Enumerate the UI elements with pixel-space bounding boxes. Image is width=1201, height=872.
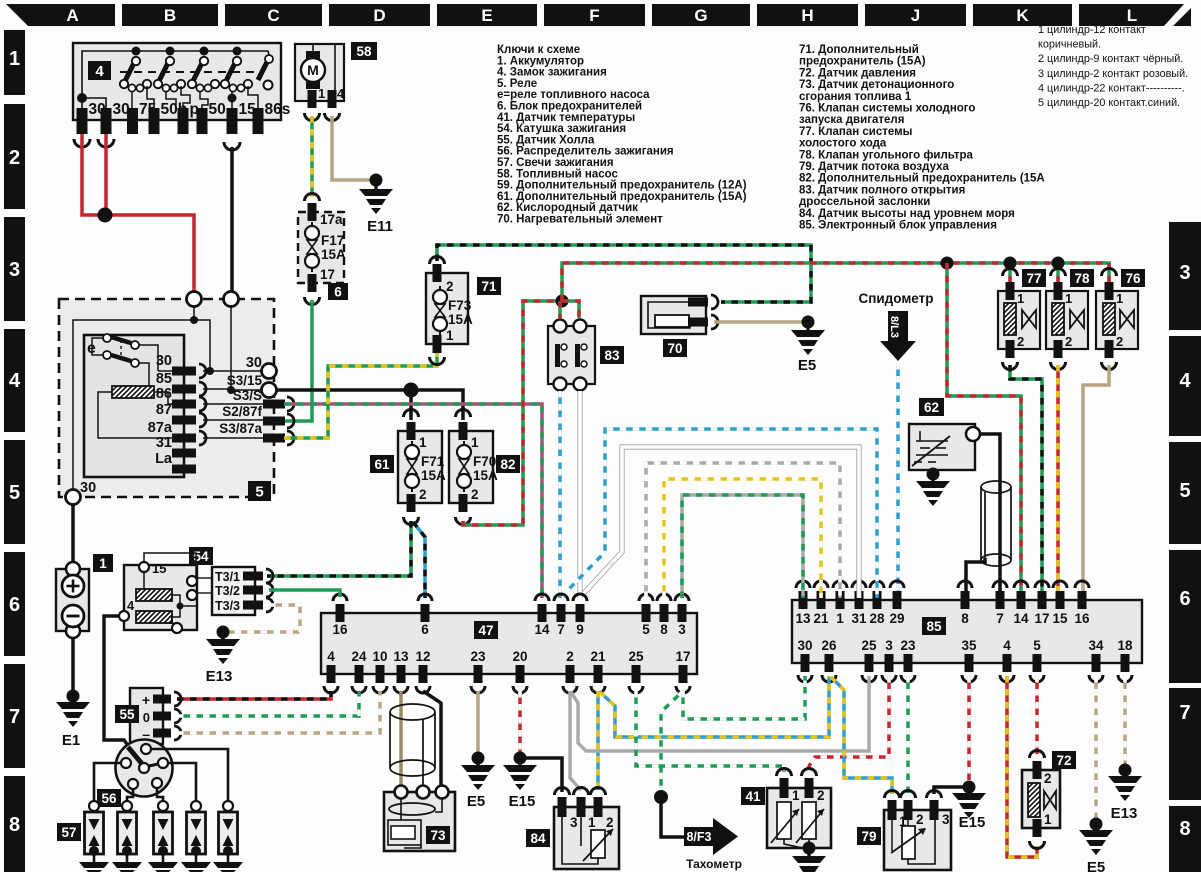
svg-text:8/F3: 8/F3 [686, 830, 711, 844]
svg-text:8: 8 [660, 622, 668, 637]
svg-text:p: p [190, 101, 199, 118]
svg-text:4 цилиндр-22 контакт----------: 4 цилиндр-22 контакт----------. [1038, 82, 1185, 94]
svg-text:70: 70 [667, 341, 682, 356]
junction dots red-green bus [941, 257, 954, 270]
wire black S3/15 to fuses 61 82 [277, 390, 463, 420]
wire blue-white 47 pin7 to 85 pin28 [565, 429, 877, 598]
heater element 70 [641, 295, 718, 357]
svg-text:3: 3 [885, 638, 893, 653]
svg-text:H: H [801, 6, 813, 25]
svg-text:5: 5 [1033, 638, 1041, 653]
svg-text:1: 1 [318, 86, 325, 101]
svg-text:85. Электронный блок управлени: 85. Электронный блок управления [799, 220, 997, 232]
svg-text:28: 28 [869, 611, 885, 626]
idle valve 77 [972, 269, 1079, 370]
unit 47 bottom pins [327, 665, 336, 683]
wire green-black fuse71 to heater 70 [437, 245, 811, 302]
svg-text:3: 3 [9, 259, 20, 281]
svg-text:7: 7 [996, 611, 1004, 626]
svg-text:30: 30 [89, 101, 106, 118]
svg-text:1: 1 [446, 328, 454, 343]
svg-text:9: 9 [576, 622, 584, 637]
relay box 5 top connectors [187, 292, 202, 307]
relay bottom terminal 30 [66, 490, 81, 505]
svg-text:0: 0 [143, 710, 150, 725]
svg-text:Спидометр: Спидометр [858, 291, 933, 306]
svg-text:41. Датчик температуры: 41. Датчик температуры [497, 112, 635, 124]
coil connector T3 [197, 567, 273, 615]
svg-text:13: 13 [393, 649, 409, 664]
svg-text:F71: F71 [421, 454, 445, 469]
svg-text:F17: F17 [321, 233, 344, 248]
fuse 61 F71 15A [370, 410, 446, 525]
ground E13 right [1119, 764, 1132, 777]
svg-text:16: 16 [1074, 611, 1090, 626]
wire blue-white 83 to 47 pin7 [558, 391, 562, 598]
svg-text:J: J [911, 6, 920, 25]
svg-text:84. Датчик высоты над уровнем: 84. Датчик высоты над уровнем моря [799, 208, 1015, 220]
svg-text:87: 87 [156, 402, 172, 418]
svg-text:25: 25 [628, 649, 644, 664]
svg-text:30: 30 [113, 101, 130, 118]
svg-text:2: 2 [1017, 334, 1024, 349]
ground under temp sensor 41 [803, 842, 816, 855]
svg-text:58. Топливный насос: 58. Топливный насос [497, 168, 619, 180]
svg-text:2: 2 [471, 487, 479, 502]
svg-text:70. Нагревательный элемент: 70. Нагревательный элемент [497, 214, 663, 226]
svg-text:B: B [164, 6, 176, 25]
svg-text:86s: 86s [265, 101, 291, 118]
svg-text:50: 50 [209, 101, 226, 118]
spark plugs 57 [57, 823, 81, 841]
svg-text:71: 71 [481, 279, 497, 294]
wire yellow-red valve78 to 85 pin15 [1056, 365, 1060, 598]
wire red-white 47 pin20 to ground E15 [518, 691, 522, 752]
wire black 47 pin12 to knock sensor [423, 691, 441, 786]
svg-text:7: 7 [557, 622, 565, 637]
wire red from terminal 30b [104, 134, 108, 215]
svg-text:E11: E11 [367, 218, 393, 235]
ignition switch block 4 [73, 43, 281, 120]
svg-text:8: 8 [9, 814, 20, 836]
svg-text:E15: E15 [959, 814, 986, 831]
svg-text:14: 14 [1013, 611, 1029, 626]
relay chip 5 [248, 481, 271, 501]
svg-text:85: 85 [156, 371, 172, 387]
svg-text:6. Блок предохранителей: 6. Блок предохранителей [497, 101, 642, 113]
svg-text:87a: 87a [148, 420, 173, 436]
wire red-green bus drop to valve 77 [1008, 263, 1012, 284]
wire green-black valve77 to 85 pin17 [1010, 365, 1042, 598]
svg-text:79. Датчик потока воздуха: 79. Датчик потока воздуха [799, 161, 950, 173]
wire black coil terminal4 to distributor [104, 616, 142, 765]
unit 85 top pins [799, 591, 808, 609]
svg-text:29: 29 [889, 611, 904, 626]
svg-text:77. Клапан системы: 77. Клапан системы [799, 126, 913, 138]
svg-text:30: 30 [797, 638, 812, 653]
svg-text:G: G [694, 6, 707, 25]
svg-text:е=реле топливного насоса: е=реле топливного насоса [497, 89, 650, 101]
svg-text:31: 31 [851, 611, 867, 626]
svg-text:E15: E15 [509, 793, 536, 810]
wire green-white 47 pin17 to 85 pin30 [683, 676, 805, 719]
svg-text:72. Датчик давления: 72. Датчик давления [799, 67, 916, 79]
svg-text:7: 7 [9, 706, 20, 728]
svg-text:F70: F70 [473, 454, 496, 469]
svg-text:30: 30 [246, 355, 262, 371]
svg-text:F73: F73 [448, 298, 472, 313]
svg-text:23: 23 [900, 638, 916, 653]
svg-text:S3/S: S3/S [233, 388, 262, 403]
svg-text:62. Кислородный датчик: 62. Кислородный датчик [497, 202, 638, 214]
ground E15 right [963, 781, 976, 794]
relay box 5 dashed enclosure [59, 299, 274, 497]
svg-text:2: 2 [606, 815, 614, 830]
wire blue-white speedometer to 85 pin29 [896, 363, 900, 598]
svg-text:3: 3 [942, 812, 950, 827]
svg-text:1: 1 [168, 612, 175, 627]
wire black E15 to altitude sensor pin3 [520, 758, 562, 792]
svg-text:4: 4 [127, 598, 135, 613]
wire red-green fuse82 to throttle switch 83 [463, 301, 560, 525]
svg-text:5: 5 [1179, 480, 1190, 502]
ground E5 right [1090, 818, 1103, 831]
svg-text:2: 2 [446, 279, 454, 294]
ground E11 [370, 174, 383, 187]
wire yellow 47 pin8 to 85 pin21 [664, 479, 821, 598]
svg-text:1 цилиндр-12 контакт: 1 цилиндр-12 контакт [1038, 24, 1146, 36]
wire black oxygen sensor to 85 pin7 [980, 434, 1000, 598]
unit 85 bottom pins [801, 654, 810, 672]
svg-text:47: 47 [478, 623, 493, 638]
svg-text:K: K [1016, 6, 1029, 25]
wire red battery feed from terminal 30 [82, 134, 194, 294]
svg-text:5: 5 [642, 622, 650, 637]
svg-text:Тахометр: Тахометр [686, 857, 742, 871]
svg-text:2: 2 [817, 788, 825, 803]
wire red-green branch to 83 pin2 [562, 301, 579, 318]
svg-text:76: 76 [1125, 271, 1141, 286]
svg-text:83: 83 [604, 348, 620, 363]
wire green-white 47 pin17 to tach junction [661, 691, 683, 791]
svg-text:предохранитель (15А): предохранитель (15А) [799, 56, 926, 68]
svg-text:25: 25 [861, 638, 877, 653]
svg-text:62: 62 [924, 400, 939, 415]
wire yellow-blue 85 pin26 to air flow 79 pin1 [831, 677, 892, 794]
svg-text:30: 30 [80, 480, 96, 496]
control unit 47 [321, 613, 697, 674]
svg-text:76. Клапан системы холодного: 76. Клапан системы холодного [799, 103, 975, 115]
wire gray 47 pin2 to 84 pin1 [570, 691, 581, 790]
fuse 71 F73 15A [426, 257, 501, 365]
junction dot S3/15 [404, 383, 419, 398]
svg-text:73: 73 [430, 828, 446, 843]
svg-text:5 цилиндр-20 контакт.синий.: 5 цилиндр-20 контакт.синий. [1038, 97, 1180, 109]
svg-text:20: 20 [512, 649, 527, 664]
wire brown 47 pin23 to ground E5 [476, 691, 480, 752]
svg-text:1: 1 [419, 435, 427, 450]
relay outer terminal S3/87a [263, 434, 285, 443]
svg-text:15A: 15A [473, 468, 498, 483]
svg-text:35: 35 [961, 638, 977, 653]
svg-text:M: M [307, 62, 319, 78]
svg-text:S2/87f: S2/87f [222, 404, 262, 419]
svg-text:86: 86 [156, 386, 172, 402]
svg-text:59. Дополнительный предохранит: 59. Дополнительный предохранитель (12А) [497, 180, 747, 192]
relay inner lines to outer terminals [203, 371, 264, 438]
svg-text:La: La [155, 451, 173, 467]
cold start valve 76 [1071, 269, 1178, 370]
svg-text:8: 8 [961, 611, 969, 626]
relay outer terminal S2/87f [263, 417, 285, 426]
svg-text:T3/2: T3/2 [215, 584, 240, 598]
carbon filter valve 78 [1020, 269, 1127, 370]
junction dot red wires [98, 208, 113, 223]
svg-text:E5: E5 [1087, 859, 1105, 872]
svg-text:84: 84 [530, 831, 546, 846]
wire red-green bus drop to valve 78 [1056, 263, 1060, 284]
wire green fuse6 to relay S2-87f [284, 300, 312, 421]
svg-text:2: 2 [1065, 334, 1072, 349]
svg-text:1: 1 [792, 788, 800, 803]
ground E5 heater [802, 316, 815, 329]
svg-text:77: 77 [1026, 271, 1041, 286]
svg-text:A: A [66, 6, 78, 25]
wire black to arrow 8/F3 [661, 797, 684, 837]
wire black battery to ground E1 [71, 638, 75, 690]
wire green-white 85 pin23 to 79 pin2 [906, 676, 910, 794]
svg-text:16: 16 [332, 622, 348, 637]
svg-text:30: 30 [156, 353, 172, 369]
svg-text:83. Датчик полного открытия: 83. Датчик полного открытия [799, 184, 965, 196]
wires distributor to spark plugs [94, 749, 228, 801]
ground E15 under 47 [514, 752, 527, 765]
oxygen sensor 62 [909, 398, 980, 470]
svg-text:85: 85 [926, 619, 942, 634]
svg-text:3 цилиндр-2 контакт розовый.: 3 цилиндр-2 контакт розовый. [1038, 68, 1188, 80]
battery 1 [56, 554, 113, 638]
svg-text:8: 8 [1179, 818, 1190, 840]
svg-text:4: 4 [1003, 638, 1011, 653]
svg-text:15A: 15A [321, 247, 346, 262]
svg-text:57. Свечи зажигания: 57. Свечи зажигания [497, 157, 614, 169]
wire green-black fuse61 to coil connector T3/1 [267, 521, 411, 576]
ground E13 coil [217, 626, 230, 639]
svg-text:15: 15 [1052, 611, 1068, 626]
border frame right bar [1169, 222, 1201, 872]
svg-text:13: 13 [795, 611, 811, 626]
svg-text:1: 1 [1116, 291, 1123, 306]
svg-text:82. Дополнительный предохранит: 82. Дополнительный предохранитель (15А [799, 173, 1045, 185]
svg-text:T3/1: T3/1 [215, 570, 240, 584]
wire brown-white hall- to 47 pin10 [177, 691, 380, 733]
svg-text:21: 21 [813, 611, 829, 626]
fuse 82 F70 15A [449, 410, 520, 525]
svg-text:56. Распределитель зажигания: 56. Распределитель зажигания [497, 146, 674, 158]
svg-text:54. Катушка зажигания: 54. Катушка зажигания [497, 123, 626, 135]
wire white-green 47 pin25 to temp sensor 41 pin1 [636, 691, 784, 772]
svg-text:5. Реле: 5. Реле [497, 78, 537, 90]
svg-text:3: 3 [570, 815, 578, 830]
junction dot tachometer [654, 790, 668, 804]
svg-text:34: 34 [1088, 638, 1104, 653]
wire red-black hall+ to 47 pin4 [177, 691, 331, 699]
wire red-yellow 85 pin4 to pressure sensor 72 pin1 [1007, 676, 1037, 857]
svg-text:24: 24 [351, 649, 367, 664]
pressure sensor 72 [994, 751, 1103, 849]
svg-text:2: 2 [419, 487, 427, 502]
wire brown-white T3/3 to ground E13 [228, 605, 300, 632]
svg-text:12: 12 [415, 649, 430, 664]
svg-text:75: 75 [139, 101, 157, 118]
wire yellow-blue 47 pin21 to 84 pin2 [596, 691, 600, 790]
wire brown 47 pin13 to knock sensor [399, 691, 403, 786]
svg-text:61. Дополнительный предохранит: 61. Дополнительный предохранитель (15А) [497, 191, 747, 203]
svg-text:L: L [1127, 6, 1137, 25]
relay e inner box [84, 335, 184, 477]
svg-text:10: 10 [372, 649, 387, 664]
svg-text:82: 82 [500, 457, 515, 472]
svg-text:4: 4 [337, 86, 345, 101]
wire black E15 to 79 pin3 [934, 787, 969, 794]
svg-text:C: C [267, 6, 279, 25]
junction dot red-green at 83 [556, 295, 569, 308]
svg-text:4: 4 [9, 370, 21, 392]
wire green-gray 47 pin3 to 85 pin13 [682, 495, 803, 598]
svg-text:23: 23 [470, 649, 486, 664]
svg-text:2: 2 [916, 812, 924, 827]
ignition coil 54 [119, 547, 213, 633]
wire red-white 85 pin5 to 72 pin2 [1035, 676, 1039, 754]
wire yellow-green S3/87a to fuse 71 [284, 352, 437, 438]
legend right column [799, 44, 1045, 232]
svg-text:17: 17 [1034, 611, 1049, 626]
control unit 85 [792, 600, 1142, 663]
svg-text:6: 6 [421, 622, 429, 637]
wire green-white hall0 to 47 pin24 [177, 691, 359, 716]
temperature sensor 41 [741, 769, 831, 848]
svg-text:4: 4 [1179, 370, 1191, 392]
svg-text:E5: E5 [467, 793, 485, 810]
wire gray-white 47 pin5 to 85 pin1 [646, 463, 840, 598]
svg-text:4. Замок зажигания: 4. Замок зажигания [497, 67, 607, 79]
arrow 8/F3 tachometer [684, 827, 713, 846]
block 4 terminals 30 30 75 50b p 50 15 86s [74, 101, 290, 150]
svg-text:3: 3 [1179, 262, 1190, 284]
svg-text:6: 6 [9, 594, 20, 616]
wire brown valve76 to 85 pin16 [1083, 365, 1109, 598]
relay terminals 30 85 86 87 87a 31 La [172, 367, 196, 376]
wire red-green bus up [562, 263, 1109, 301]
svg-text:17: 17 [675, 649, 690, 664]
svg-text:71. Дополнительный: 71. Дополнительный [799, 44, 919, 56]
wire gray 47 pin2 to 85 pin25 [571, 676, 869, 751]
svg-text:15A: 15A [448, 312, 473, 327]
svg-text:3: 3 [678, 622, 686, 637]
svg-text:1: 1 [1017, 291, 1024, 306]
ground E1 [67, 690, 80, 703]
svg-text:E5: E5 [798, 357, 816, 374]
svg-text:2: 2 [566, 649, 574, 664]
svg-text:1. Аккумулятор: 1. Аккумулятор [497, 55, 584, 67]
svg-text:Ключи к схеме: Ключи к схеме [497, 44, 580, 56]
wire blue-black fuse61 to unit 47 pin6 [413, 522, 425, 598]
ground below oxygen sensor [927, 468, 940, 481]
unit 47 top pins [336, 604, 345, 622]
wire red-green bus to 85 pin14 [947, 263, 1021, 598]
svg-text:55. Датчик Холла: 55. Датчик Холла [497, 134, 595, 146]
fuse block 6 F17 15A [298, 194, 348, 305]
wire brown-white 85 pin18 to ground E13 [1123, 676, 1127, 764]
svg-text:E: E [481, 6, 492, 25]
relay outer terminal S3/15 [262, 383, 277, 398]
svg-text:6: 6 [1179, 588, 1190, 610]
svg-text:55: 55 [119, 707, 135, 722]
svg-text:78. Клапан угольного фильтра: 78. Клапан угольного фильтра [799, 149, 974, 161]
svg-text:5: 5 [9, 482, 20, 504]
air flow sensor 79 [857, 791, 951, 870]
legend center column [497, 44, 747, 226]
relay outer terminal 30 [262, 364, 277, 379]
svg-text:79: 79 [861, 829, 876, 844]
svg-text:31: 31 [156, 435, 172, 451]
wire white 47 pin9 to 85 pin31 [584, 447, 859, 598]
svg-text:холостого хода: холостого хода [799, 138, 887, 150]
shield cylinder lambda [981, 481, 1011, 566]
wire gray heater to ground E5 [714, 320, 803, 324]
svg-text:57: 57 [61, 825, 76, 840]
wire brown pump ground [332, 116, 372, 180]
svg-text:2 цилиндр-9 контакт чёрный.: 2 цилиндр-9 контакт чёрный. [1038, 53, 1183, 65]
svg-text:14: 14 [534, 622, 550, 637]
svg-text:5: 5 [255, 483, 263, 500]
svg-text:2: 2 [1116, 334, 1123, 349]
fuel pump motor 58 [295, 42, 377, 121]
svg-text:50b: 50b [161, 101, 188, 118]
altitude sensor 84 [526, 788, 619, 869]
svg-text:4: 4 [95, 63, 104, 80]
svg-text:запуска двигателя: запуска двигателя [799, 114, 904, 126]
wire magenta-green S3/S to control unit 47 pin14 [284, 404, 542, 598]
svg-text:15A: 15A [421, 468, 446, 483]
svg-text:коричневый.: коричневый. [1038, 39, 1101, 51]
svg-text:E13: E13 [1111, 805, 1138, 822]
svg-text:2: 2 [9, 147, 20, 169]
svg-text:72: 72 [1056, 753, 1071, 768]
svg-text:F: F [589, 6, 599, 25]
distributor 56 [97, 740, 173, 808]
hall sender 55 [115, 688, 181, 744]
svg-text:дроссельной заслонки: дроссельной заслонки [799, 196, 930, 208]
svg-text:17a: 17a [320, 212, 343, 227]
arrow 8/L3 speedometer [888, 311, 908, 341]
svg-text:1: 1 [9, 48, 20, 70]
ground E5 under 47 [472, 752, 485, 765]
svg-text:56: 56 [101, 791, 117, 806]
wire black ignition 15 [230, 147, 234, 294]
svg-text:58: 58 [356, 44, 372, 59]
svg-text:73. Датчик детонационного: 73. Датчик детонационного [799, 79, 954, 91]
relay box 5 inner wiring [73, 306, 231, 490]
svg-text:17: 17 [320, 267, 335, 282]
wire yellow-blue 47 pin21 to 85 pin26 [600, 676, 829, 737]
knock sensor shield cylinder [390, 704, 435, 786]
svg-text:61: 61 [374, 457, 390, 472]
svg-text:E1: E1 [62, 732, 80, 749]
svg-text:1: 1 [1044, 812, 1052, 827]
svg-text:7: 7 [1179, 702, 1190, 724]
wire green-yellow pump to fuse [310, 116, 314, 197]
